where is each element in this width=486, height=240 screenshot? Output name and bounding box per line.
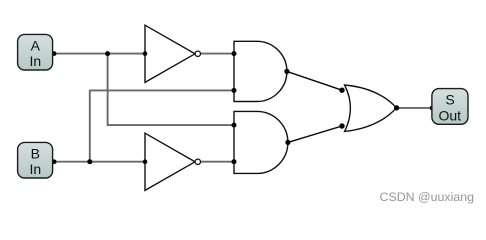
OR gate: [345, 85, 397, 131]
pin dot: OR input 1: [339, 88, 344, 93]
pin dot: top AND input 1: [232, 51, 237, 56]
svg-text:S: S: [445, 91, 454, 107]
watermark CSDN @uuxiang: [380, 190, 475, 204]
svg-text:CSDN @uuxiang: CSDN @uuxiang: [380, 190, 475, 204]
wire B branch to upper AND: [90, 90, 234, 161]
svg-text:A: A: [31, 37, 41, 53]
inverter (top NOT gate): [145, 25, 201, 82]
wire lower AND output to OR input (diagonal): [288, 126, 342, 142]
AND gate (bottom): [234, 111, 288, 173]
pin dot: OR input 2: [339, 123, 344, 128]
wire NOT-A output to upper AND: [201, 53, 235, 55]
pin dot: OR output: [394, 105, 399, 110]
output port S: [432, 89, 468, 125]
input port A: [18, 34, 53, 70]
svg-text:In: In: [29, 161, 41, 177]
wire NOT-B output to lower AND: [201, 161, 235, 163]
inverter (bottom NOT gate): [145, 133, 201, 190]
pin dot: top AND input 2: [232, 88, 237, 93]
svg-text:Out: Out: [439, 107, 462, 123]
svg-text:In: In: [29, 53, 41, 69]
AND gate (top): [234, 41, 287, 101]
pin dot: A port: [52, 51, 57, 56]
pin dot: B port: [52, 159, 57, 164]
pin dot: top inverter input: [143, 51, 148, 56]
pin dot: top AND output: [284, 69, 289, 74]
junction on wire A: [105, 51, 110, 56]
svg-text:B: B: [31, 145, 40, 161]
input port B: [18, 142, 53, 178]
pin dot: bottom AND output: [285, 140, 290, 145]
pin dot: bottom AND input 2: [232, 159, 237, 164]
pin dot: S port: [430, 106, 435, 111]
junction on wire B: [87, 159, 92, 164]
wire upper AND output to OR input (diagonal): [287, 71, 342, 90]
wire OR output to S: [397, 107, 433, 109]
wire A branch to lower AND: [108, 54, 234, 126]
pin dot: bottom inverter input: [143, 159, 148, 164]
pin dot: bottom AND input 1: [232, 123, 237, 128]
wire B main: [54, 161, 145, 163]
wire A main: [54, 53, 145, 55]
